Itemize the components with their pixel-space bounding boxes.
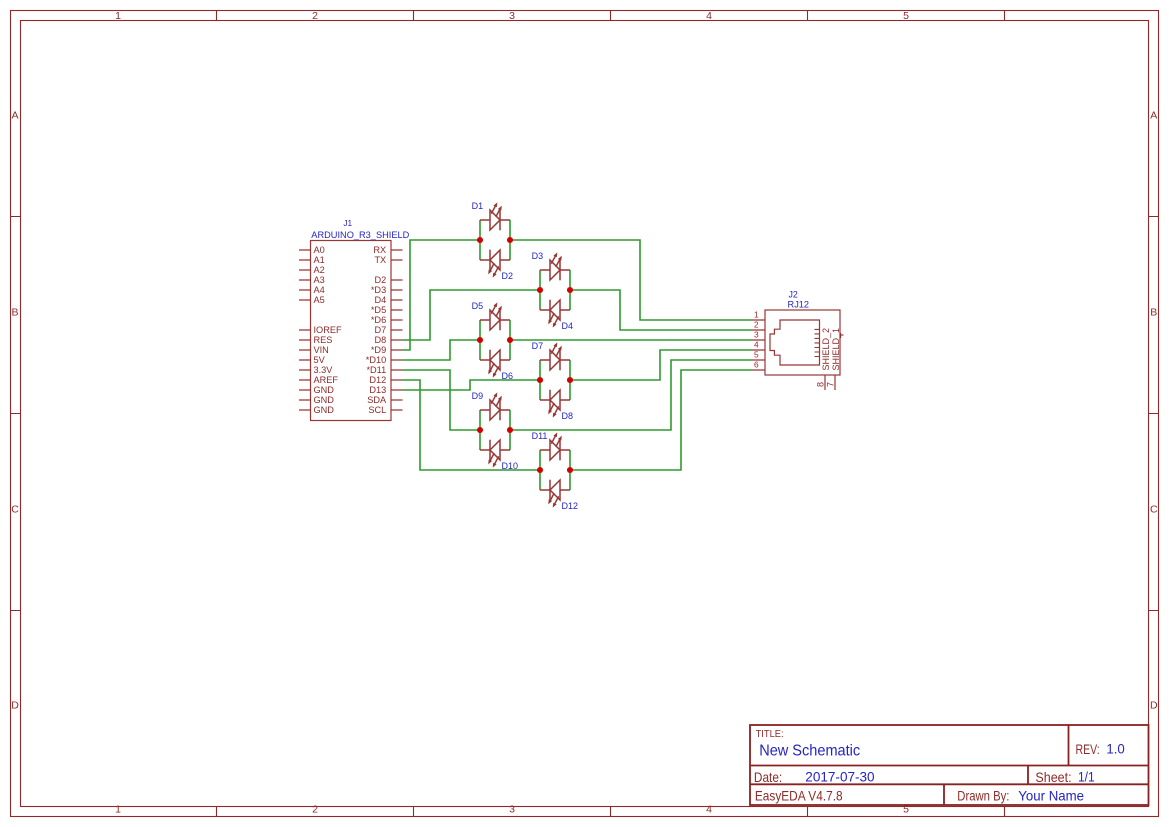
svg-text:C: C <box>1150 504 1158 516</box>
svg-text:1: 1 <box>115 10 121 22</box>
title block Sheet divider <box>1027 766 1029 785</box>
J2 pin numbers 1-6 <box>754 310 759 370</box>
svg-text:5: 5 <box>903 10 909 22</box>
svg-text:A3: A3 <box>314 275 325 285</box>
junction node D1/D2 left <box>477 237 483 243</box>
J2 jack contact ticks <box>815 329 821 356</box>
wire D9/D10 pair to J2 pin5 <box>510 360 752 430</box>
J1 right pin stubs <box>391 250 403 410</box>
svg-text:5: 5 <box>754 350 759 360</box>
diode D1 <box>480 202 510 230</box>
svg-text:1/1: 1/1 <box>1078 769 1095 785</box>
svg-text:SHIELD_2: SHIELD_2 <box>821 328 831 371</box>
diode D5 <box>480 302 510 330</box>
svg-text:7: 7 <box>826 382 836 387</box>
svg-text:4: 4 <box>706 10 712 22</box>
svg-text:A1: A1 <box>314 255 325 265</box>
svg-text:D7: D7 <box>374 325 386 335</box>
svg-text:C: C <box>11 504 19 516</box>
J2 right edge stub <box>840 334 844 336</box>
diode D10 <box>480 440 510 468</box>
wire D3/D4 pair to J2 pin2 <box>570 290 752 330</box>
svg-text:6: 6 <box>754 360 759 370</box>
connector J2 body <box>765 310 840 375</box>
wire J1 D12 to D11/D12 pair <box>403 380 541 470</box>
svg-text:B: B <box>1150 307 1157 319</box>
title block row divider 1 <box>750 765 1149 767</box>
svg-text:GND: GND <box>314 385 335 395</box>
diode D3 <box>540 252 570 280</box>
J1 left pin stubs <box>299 250 311 410</box>
svg-text:A: A <box>11 110 18 122</box>
svg-text:*D3: *D3 <box>371 285 386 295</box>
J2 jack outline <box>770 320 820 365</box>
wire arms D11/D12 pair <box>540 450 570 490</box>
J1 right pin names <box>366 245 387 415</box>
svg-text:*D10: *D10 <box>366 355 386 365</box>
svg-text:REV:: REV: <box>1076 741 1100 757</box>
svg-text:D: D <box>11 700 19 712</box>
svg-text:4: 4 <box>754 340 759 350</box>
junction node D9/D10 left <box>477 427 483 433</box>
wire J1 D8 to D3/D4 pair <box>403 290 541 340</box>
frame column ticks bottom <box>217 807 1005 817</box>
frame column labels bottom <box>115 803 909 815</box>
svg-text:SCL: SCL <box>368 405 386 415</box>
svg-text:Date:: Date: <box>754 769 782 785</box>
svg-text:3.3V: 3.3V <box>314 365 334 375</box>
frame column labels top <box>115 10 909 22</box>
svg-text:D9: D9 <box>472 391 484 401</box>
svg-text:D10: D10 <box>502 461 519 471</box>
frame row labels left <box>11 110 19 712</box>
svg-text:RES: RES <box>314 335 333 345</box>
svg-text:SDA: SDA <box>367 395 387 405</box>
svg-text:*D6: *D6 <box>371 315 386 325</box>
svg-text:EasyEDA V4.7.8: EasyEDA V4.7.8 <box>755 788 843 804</box>
svg-text:D1: D1 <box>472 201 484 211</box>
wire D1/D2 pair to J2 pin1 <box>510 240 752 320</box>
svg-text:B: B <box>11 307 18 319</box>
svg-text:D12: D12 <box>369 375 386 385</box>
J2 bottom pin stubs 8 and 7 <box>825 375 835 390</box>
svg-text:D3: D3 <box>532 251 544 261</box>
svg-text:Your Name: Your Name <box>1018 788 1084 804</box>
svg-text:D6: D6 <box>502 371 514 381</box>
svg-text:D7: D7 <box>532 341 544 351</box>
svg-text:3: 3 <box>509 10 515 22</box>
junction node D7/D8 right <box>567 377 573 383</box>
svg-text:D2: D2 <box>502 271 514 281</box>
junction node D9/D10 right <box>507 427 513 433</box>
svg-text:TX: TX <box>374 255 386 265</box>
svg-text:Sheet:: Sheet: <box>1035 769 1071 785</box>
junction node D5/D6 right <box>507 337 513 343</box>
diode D9 <box>480 392 510 420</box>
svg-text:J1: J1 <box>343 218 352 228</box>
connector J1 body <box>311 241 392 421</box>
J1 left pin names <box>314 245 342 415</box>
svg-text:D: D <box>1150 700 1158 712</box>
svg-text:A4: A4 <box>314 285 325 295</box>
wire J1 D13 to D7/D8 pair <box>403 380 541 390</box>
svg-text:SHIELD_1: SHIELD_1 <box>831 328 841 371</box>
junction node D3/D4 left <box>537 287 543 293</box>
junction node D7/D8 left <box>537 377 543 383</box>
wire J1 *D10 to D5/D6 pair <box>403 340 481 360</box>
svg-text:*D9: *D9 <box>371 345 386 355</box>
svg-text:8: 8 <box>816 382 826 387</box>
diode D12 <box>540 480 570 508</box>
svg-text:D13: D13 <box>369 385 386 395</box>
frame column ticks top <box>217 11 1005 21</box>
frame row labels right <box>1150 110 1158 712</box>
svg-text:RX: RX <box>373 245 386 255</box>
svg-text:1: 1 <box>754 310 759 320</box>
diode D7 <box>540 342 570 370</box>
svg-text:VIN: VIN <box>314 345 329 355</box>
wire D11/D12 pair to J2 pin6 <box>570 370 752 470</box>
svg-text:D2: D2 <box>374 275 386 285</box>
wire arms D1/D2 pair <box>480 220 510 260</box>
wire J1 *D11 to D9/D10 pair <box>403 370 481 430</box>
svg-text:2017-07-30: 2017-07-30 <box>805 769 874 785</box>
svg-text:GND: GND <box>314 405 335 415</box>
diode D2 <box>480 250 510 278</box>
frame row ticks right <box>1149 217 1159 611</box>
diode D4 <box>540 300 570 328</box>
title block REV divider <box>1068 725 1070 766</box>
diode D6 <box>480 350 510 378</box>
svg-text:*D5: *D5 <box>371 305 386 315</box>
junction node D11/D12 left <box>537 467 543 473</box>
svg-text:A0: A0 <box>314 245 325 255</box>
svg-text:2: 2 <box>312 10 318 22</box>
svg-text:5V: 5V <box>314 355 326 365</box>
svg-text:D11: D11 <box>532 431 548 441</box>
svg-text:A5: A5 <box>314 295 325 305</box>
wire arms D5/D6 pair <box>480 320 510 360</box>
diode D8 <box>540 390 570 418</box>
wire D5/D6 pair to J2 pin3 <box>510 339 752 341</box>
junction node D5/D6 left <box>477 337 483 343</box>
J2 left pin stubs 1-6 <box>752 320 765 370</box>
svg-text:2: 2 <box>312 803 318 815</box>
svg-text:2: 2 <box>754 320 759 330</box>
wire arms D9/D10 pair <box>480 410 510 450</box>
svg-text:D5: D5 <box>472 301 484 311</box>
svg-text:TITLE:: TITLE: <box>756 729 784 740</box>
svg-text:D4: D4 <box>562 321 574 331</box>
svg-text:ARDUINO_R3_SHIELD: ARDUINO_R3_SHIELD <box>311 230 409 240</box>
svg-text:3: 3 <box>754 330 759 340</box>
svg-text:*D11: *D11 <box>366 365 386 375</box>
svg-text:GND: GND <box>314 395 335 405</box>
wire J1 *D9 to D1/D2 pair <box>403 240 481 350</box>
frame row ticks left <box>11 217 21 611</box>
svg-text:A2: A2 <box>314 265 325 275</box>
svg-text:D12: D12 <box>562 501 579 511</box>
wire arms D3/D4 pair <box>540 270 570 310</box>
svg-text:AREF: AREF <box>314 375 339 385</box>
svg-text:RJ12: RJ12 <box>788 299 810 309</box>
junction node D1/D2 right <box>507 237 513 243</box>
svg-text:A: A <box>1150 110 1157 122</box>
diode D11 <box>540 432 570 460</box>
svg-text:Drawn By:: Drawn By: <box>957 788 1009 804</box>
wire D7/D8 pair to J2 pin4 <box>570 350 752 380</box>
title block DrawnBy divider <box>943 784 945 805</box>
svg-text:J2: J2 <box>788 290 797 300</box>
title block border <box>750 725 1149 805</box>
svg-text:New Schematic: New Schematic <box>759 743 860 760</box>
svg-text:4: 4 <box>706 803 712 815</box>
svg-text:1: 1 <box>115 803 121 815</box>
junction node D3/D4 right <box>567 287 573 293</box>
title block row divider 2 <box>750 783 1149 785</box>
svg-text:D4: D4 <box>374 295 386 305</box>
svg-text:D8: D8 <box>562 411 574 421</box>
svg-text:3: 3 <box>509 803 515 815</box>
wire arms D7/D8 pair <box>540 360 570 400</box>
svg-text:1.0: 1.0 <box>1106 741 1125 757</box>
svg-text:IOREF: IOREF <box>314 325 342 335</box>
svg-text:D8: D8 <box>374 335 386 345</box>
junction node D11/D12 right <box>567 467 573 473</box>
